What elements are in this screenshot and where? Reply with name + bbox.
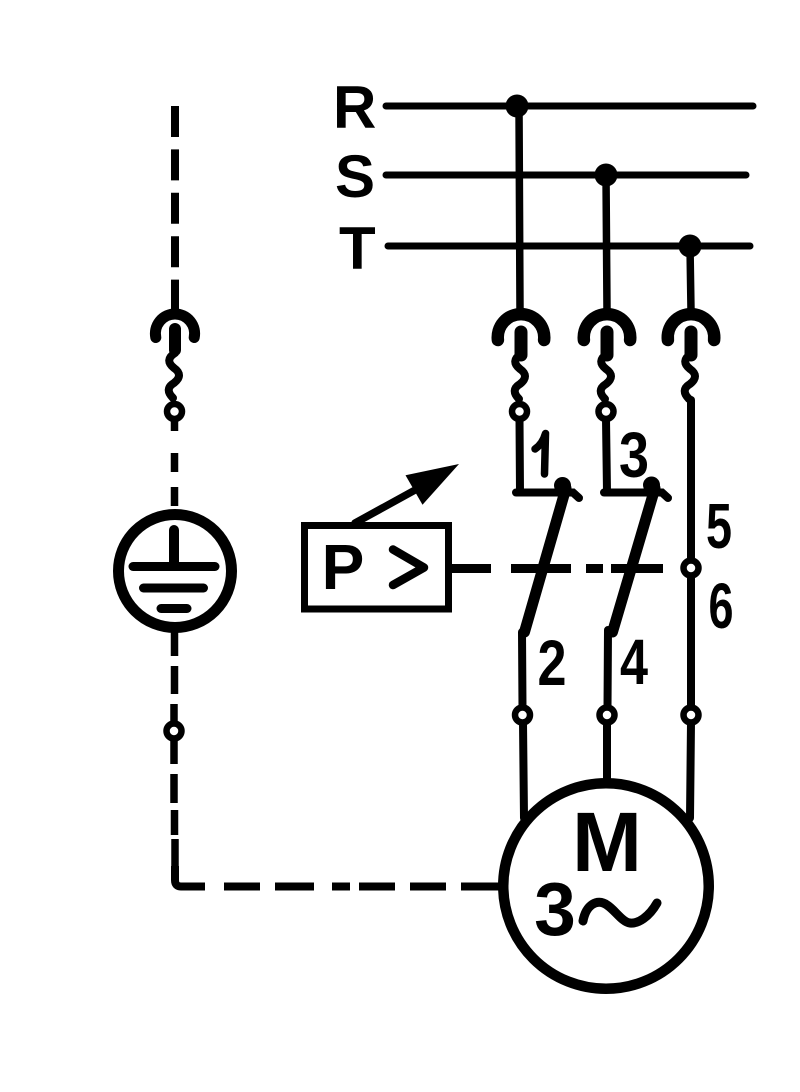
svg-text:S: S [335,143,375,210]
svg-text:2: 2 [538,627,567,699]
svg-text:3: 3 [534,867,576,951]
svg-text:4: 4 [620,626,648,698]
svg-text:6: 6 [709,570,734,642]
svg-text:3: 3 [619,419,649,491]
svg-text:R: R [333,74,376,141]
svg-text:M: M [572,795,642,889]
svg-text:5: 5 [706,490,732,562]
svg-text:P: P [322,531,365,603]
svg-text:T: T [339,215,376,282]
